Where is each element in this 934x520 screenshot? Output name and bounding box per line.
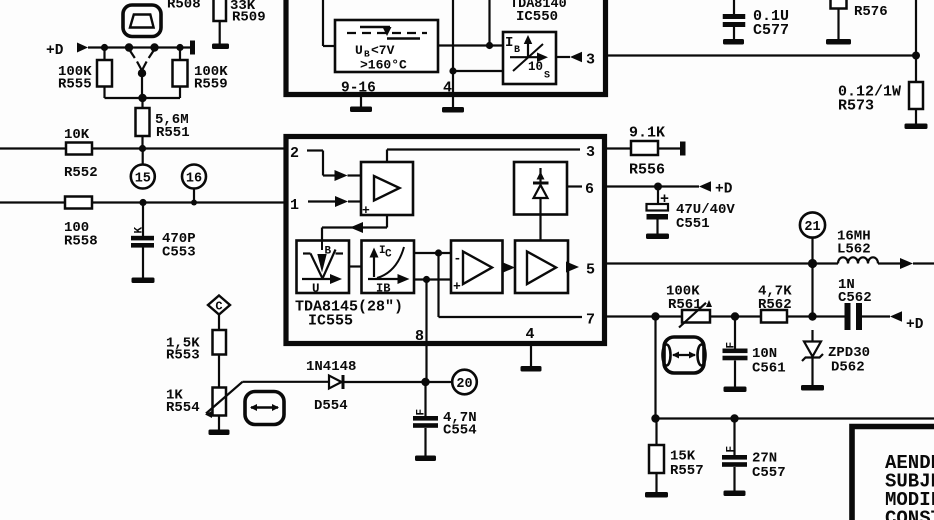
wire pin5 to edge — [913, 262, 934, 264]
pin label 2 — [290, 145, 299, 162]
svg-text:F: F — [726, 446, 738, 453]
svg-text:7: 7 — [586, 312, 595, 329]
capacitor C577 — [723, 0, 789, 40]
pin label 8 — [415, 328, 424, 345]
inductor L562 — [837, 229, 878, 264]
ground C551 — [646, 234, 669, 240]
wire Ua to curve block — [349, 265, 362, 267]
capacitor C554 — [413, 382, 477, 456]
node 21 terminal — [800, 212, 825, 263]
resistor R573 — [838, 56, 923, 125]
pin 3 IC550 output — [556, 52, 595, 69]
wire curve to comparator lower — [414, 278, 451, 280]
ground C557 — [724, 491, 746, 497]
comparator block UB/thermal U2 — [335, 20, 438, 73]
icon linearity-geometry B — [245, 392, 284, 425]
junction preset right contact — [149, 43, 159, 58]
resistor R562 — [758, 284, 792, 323]
junction C561 tap — [731, 312, 739, 320]
svg-text:I: I — [505, 35, 513, 51]
pin 6 internal — [567, 181, 594, 198]
wire +D rail top-left — [88, 46, 191, 48]
wire pin7 net segment b — [710, 315, 761, 317]
junction R555 top — [101, 44, 108, 51]
icon width-geometry C — [663, 337, 706, 373]
svg-text:R556: R556 — [629, 162, 665, 179]
ground IC550 9-16 — [350, 95, 372, 113]
pin label 4 — [443, 80, 452, 97]
resistor R509 — [214, 0, 266, 44]
wire IC550 out to R573 node — [606, 54, 917, 56]
wire pin7 internal — [439, 253, 583, 317]
wire pin8 drop — [425, 280, 427, 382]
svg-text:10K: 10K — [64, 127, 90, 143]
ground IC550 pin4 — [442, 95, 464, 113]
node 15 terminal — [131, 149, 155, 189]
wire IC550 supply drop — [488, 0, 490, 46]
svg-text:6: 6 — [585, 181, 594, 198]
capacitor C551 electrolytic — [647, 187, 736, 235]
node 16 terminal — [182, 165, 206, 203]
svg-text:F: F — [726, 342, 738, 349]
junction preset left contact — [125, 43, 135, 58]
ground R509 — [212, 44, 229, 50]
wire IC550 pin4 vertical — [452, 0, 454, 95]
capacitor C557 — [722, 419, 786, 492]
wire pin7 net segment c — [787, 315, 845, 317]
ground R576 — [826, 39, 851, 45]
resistor R555 — [58, 48, 112, 99]
svg-text:U: U — [312, 282, 320, 296]
svg-text:2: 2 — [290, 145, 299, 162]
wire net-16 left segment — [0, 201, 65, 203]
zener diode D562 ZPD30 — [802, 330, 870, 386]
wire pin4 to IB box — [453, 70, 503, 72]
svg-text:D562: D562 — [831, 360, 865, 376]
junction pin8 tap — [423, 276, 430, 283]
svg-text:R573: R573 — [838, 98, 874, 115]
svg-text:15: 15 — [135, 172, 151, 187]
ground C554 — [415, 456, 436, 462]
junction divider center — [138, 94, 146, 102]
svg-text:U: U — [355, 43, 363, 58]
ground C577 — [723, 39, 744, 45]
supply +D feed (left) — [46, 43, 88, 60]
svg-text:10: 10 — [528, 60, 543, 74]
wire IC550 pin9-16 drop — [323, 0, 335, 46]
arrow comparator to driver — [502, 262, 515, 273]
junction R573 top — [912, 52, 920, 60]
svg-text:5: 5 — [586, 262, 595, 279]
svg-text:R558: R558 — [64, 234, 98, 250]
svg-text:C577: C577 — [753, 22, 789, 39]
pin label 3 IC555 — [586, 144, 595, 161]
svg-text:+: + — [362, 203, 370, 218]
wire net-15 to IC555 pin2 — [92, 147, 284, 149]
ground IC555 pin4 — [521, 344, 542, 372]
svg-text:CONSTRUCTION: CONSTRUCTION — [885, 508, 934, 520]
junction D562 tap — [808, 312, 816, 320]
driver amp U9 — [515, 241, 568, 294]
wire pin7 net segment a — [605, 315, 683, 317]
junction node16 tap — [191, 200, 197, 206]
resistor R559 — [173, 48, 229, 99]
svg-text:R552: R552 — [64, 165, 98, 181]
resistor R558 — [64, 197, 98, 250]
wire net-15 left segment — [0, 147, 66, 149]
wire L562 to arrow — [878, 262, 902, 264]
resistor R576 — [831, 0, 888, 39]
capacitor C553 — [131, 203, 196, 278]
wire pin1 internal — [308, 196, 361, 207]
ground D562 — [801, 385, 824, 391]
junction pin4 tap — [449, 67, 456, 74]
svg-text:<7V: <7V — [371, 43, 395, 58]
potentiometer R554 — [166, 382, 243, 418]
ground R573 — [905, 124, 928, 130]
junction C551 tap — [654, 183, 662, 191]
svg-text:R508: R508 — [167, 0, 201, 13]
svg-text:IB: IB — [376, 282, 390, 296]
svg-text:R551: R551 — [156, 125, 190, 141]
node 20 terminal — [452, 370, 477, 395]
wire bottom net — [656, 417, 934, 419]
junction pin8/C554 — [421, 378, 429, 386]
ground C561 — [724, 387, 747, 393]
svg-text:+: + — [453, 279, 461, 294]
connector node C diamond — [208, 296, 230, 331]
junction node21 tap — [808, 259, 817, 268]
icon screen-geometry A — [123, 5, 161, 37]
svg-text:B: B — [514, 45, 520, 56]
svg-text:C: C — [215, 300, 222, 314]
svg-text:D554: D554 — [314, 398, 348, 414]
svg-text:C551: C551 — [676, 216, 710, 232]
svg-text:R559: R559 — [194, 77, 228, 93]
junction bottom net left — [651, 414, 659, 422]
wire wiper to divider center — [141, 73, 143, 98]
svg-text:S: S — [544, 71, 550, 82]
junction feedback tap — [435, 249, 442, 256]
diode block U4 — [514, 162, 567, 215]
wire R556 to terminator — [658, 147, 680, 149]
svg-text:R509: R509 — [232, 10, 266, 26]
junction supply tap — [486, 42, 493, 49]
svg-text:C: C — [385, 249, 392, 261]
resistor R552 — [64, 127, 98, 181]
wire diode block to U6 — [539, 215, 541, 241]
pin label 4 IC555 — [526, 326, 535, 343]
svg-text:R555: R555 — [58, 77, 92, 93]
svg-text:C561: C561 — [752, 361, 786, 377]
wire pin5 net — [605, 262, 839, 264]
junction C553 tap — [139, 199, 146, 206]
wire wiper to D554 — [243, 381, 330, 383]
wire pin6 to +D — [605, 185, 700, 187]
wire curve to comparator upper — [414, 252, 451, 254]
svg-text:16: 16 — [186, 172, 202, 187]
svg-text:+D: +D — [906, 317, 924, 333]
svg-text:1: 1 — [290, 197, 299, 214]
ground R554 — [209, 416, 230, 436]
svg-text:C562: C562 — [838, 290, 872, 306]
note box modifications — [852, 427, 934, 520]
svg-text:R553: R553 — [166, 348, 200, 364]
svg-text:+D: +D — [715, 182, 733, 198]
wire divider bottom join — [105, 97, 181, 99]
sawtooth block Ua U5 — [297, 241, 350, 297]
wire node21 to pin7 net — [811, 264, 813, 317]
potentiometer R561 — [666, 284, 712, 328]
supply +D arrow right — [890, 311, 924, 333]
ground R557 — [645, 492, 668, 498]
svg-text:R562: R562 — [758, 297, 792, 313]
label R508 — [167, 0, 201, 13]
ground C553 — [132, 278, 155, 284]
svg-text:1N4148: 1N4148 — [306, 359, 356, 375]
op-amp U1 input stage — [361, 162, 413, 218]
resistor R557 — [649, 419, 704, 493]
svg-text:C557: C557 — [752, 465, 786, 481]
svg-text:L562: L562 — [837, 242, 871, 258]
pin label 7 — [586, 312, 595, 329]
svg-text:9-16: 9-16 — [341, 81, 376, 97]
wire R557 drop — [654, 317, 656, 419]
pin label 9-16 — [341, 81, 376, 97]
wire U1 output to Ua block — [322, 215, 387, 241]
resistor R551 — [136, 98, 190, 149]
op-amp block IC555 TDA8145 outline — [286, 137, 605, 344]
svg-text:R557: R557 — [670, 463, 704, 479]
svg-text:8: 8 — [415, 328, 424, 345]
wire UB to IB box — [438, 44, 503, 46]
svg-text:3: 3 — [586, 52, 595, 69]
svg-text:>160°C: >160°C — [360, 58, 407, 73]
svg-text:4: 4 — [526, 326, 535, 343]
junction R551 tap — [139, 145, 146, 152]
svg-text:C553: C553 — [162, 245, 196, 261]
supply +D arrow pin6 — [699, 181, 733, 197]
svg-text:R561: R561 — [668, 297, 702, 313]
svg-text:IC555: IC555 — [308, 313, 353, 330]
arrow pin5 output right — [900, 258, 913, 269]
wire top feed right — [915, 0, 917, 56]
svg-text:R576: R576 — [854, 4, 888, 20]
svg-text:-: - — [454, 251, 462, 266]
svg-text:4: 4 — [443, 80, 452, 97]
pin label 1 — [290, 197, 299, 214]
capacitor C562 — [838, 277, 872, 330]
wire D554 to node 20 — [345, 381, 453, 383]
wire C562 to +D — [862, 315, 890, 317]
resistor R553 — [166, 330, 226, 388]
svg-text:+D: +D — [46, 43, 64, 59]
svg-text:C554: C554 — [443, 423, 477, 439]
svg-text:K: K — [134, 227, 146, 234]
svg-text:F: F — [416, 409, 428, 416]
diode D554 1N4148 — [306, 359, 356, 414]
comparator U8 — [451, 241, 503, 295]
wire pin2 internal — [307, 151, 361, 182]
terminator bar R556 — [680, 142, 686, 156]
op-amp block IC550 TDA8140 outline — [286, 0, 606, 95]
junction R557 branch — [651, 312, 659, 320]
junction R559 top — [176, 44, 183, 51]
svg-text:21: 21 — [804, 220, 820, 235]
junction C557 tap — [730, 414, 738, 422]
svg-text:IC550: IC550 — [516, 9, 558, 25]
svg-text:9.1K: 9.1K — [629, 125, 665, 142]
preset wiper arrow — [137, 62, 147, 78]
wire U1 to pin3 — [387, 150, 580, 163]
svg-text:3: 3 — [586, 144, 595, 161]
current-limit block IB/10 U3 — [503, 32, 556, 84]
transfer-curve block Ic/Ib U7 — [362, 241, 415, 296]
capacitor C561 — [723, 317, 786, 388]
svg-text:20: 20 — [456, 377, 472, 392]
pin 5 output arrow — [566, 262, 595, 279]
wire net-16 to IC555 pin1 — [92, 201, 284, 203]
svg-text:R554: R554 — [166, 400, 200, 416]
wire pin3 to R556 — [605, 147, 632, 149]
resistor R556 — [629, 125, 665, 179]
terminator bar after R559 — [190, 41, 195, 55]
